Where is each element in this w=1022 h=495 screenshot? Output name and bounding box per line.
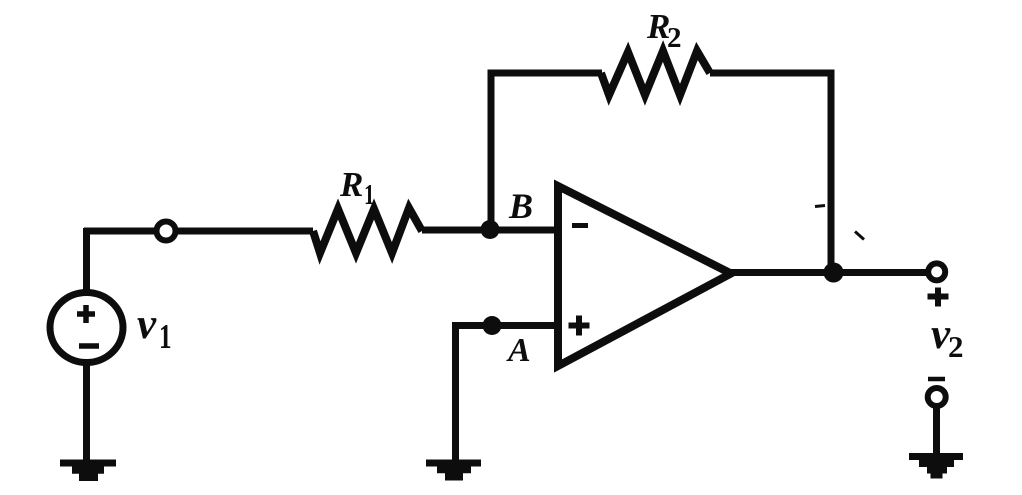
resistor R1 — [313, 208, 422, 253]
label R1 — [339, 165, 374, 211]
svg-text:B: B — [508, 186, 533, 226]
source V1 plus sign — [77, 305, 95, 323]
source V1 minus sign — [79, 343, 99, 349]
ground G3 — [909, 457, 963, 476]
node output junction dot — [824, 263, 844, 283]
wire left vertical from input to source — [83, 228, 90, 295]
svg-text:2: 2 — [948, 329, 964, 364]
wire feedback top left segment — [488, 70, 603, 77]
node v2 lower terminal open circle — [928, 388, 946, 406]
wire node B up to feedback — [488, 73, 495, 233]
op-amp non-inverting plus mark — [569, 316, 590, 336]
svg-text:v: v — [137, 301, 157, 348]
node output terminal open circle — [928, 263, 945, 280]
op-amp U1 triangle — [558, 186, 731, 366]
stray mark 2 — [855, 232, 864, 240]
label v1 — [137, 301, 172, 356]
label v2 — [931, 311, 964, 364]
wire input horizontal left segment — [84, 228, 313, 235]
svg-text:1: 1 — [364, 179, 374, 211]
wire op-amp output — [731, 269, 927, 276]
ground G2 — [426, 463, 481, 477]
wire non-inverting input — [456, 322, 559, 329]
op-amp inverting minus mark — [572, 223, 588, 228]
wire node A down to ground — [452, 322, 459, 466]
v2 minus sign — [928, 377, 945, 382]
svg-text:2: 2 — [667, 22, 682, 54]
node A junction dot — [483, 316, 502, 335]
svg-text:1: 1 — [159, 317, 172, 356]
ground G1 — [60, 463, 116, 477]
stray mark 1 — [815, 206, 825, 207]
node B junction dot — [481, 220, 500, 239]
node input terminal open circle — [157, 222, 176, 241]
resistor R2 — [601, 51, 710, 95]
svg-text:R: R — [339, 165, 363, 204]
source V1 circle — [50, 293, 123, 363]
wire lower terminal to ground — [933, 405, 940, 457]
svg-text:A: A — [506, 332, 531, 369]
wire R1 to op-amp inverting input — [422, 227, 559, 234]
v2 plus sign — [928, 288, 949, 307]
wire source to ground — [83, 362, 90, 467]
wire feedback top right segment — [710, 70, 834, 77]
wire feedback right vertical down to output — [828, 70, 835, 274]
label R2 — [646, 7, 682, 54]
